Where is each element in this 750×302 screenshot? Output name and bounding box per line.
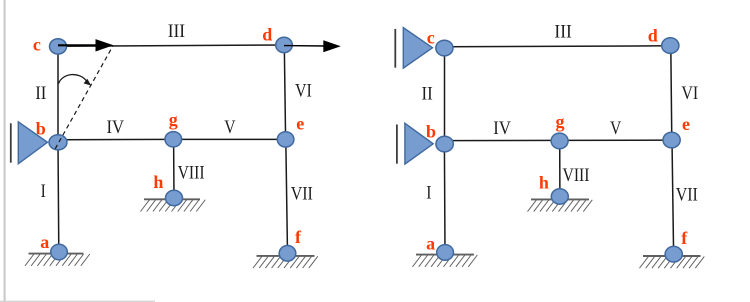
member II (wire c-b): [57, 46, 59, 142]
label d right: [648, 26, 658, 46]
label II: [35, 83, 46, 104]
svg-text:e: e: [682, 114, 690, 134]
svg-text:V: V: [610, 118, 622, 139]
member I (wire b-a): [57, 142, 60, 252]
dashed displaced member (b to arrow tip): [55, 45, 113, 148]
pin support at b right: [397, 123, 433, 164]
force arrow at c: [58, 39, 114, 51]
svg-text:VII: VII: [291, 184, 313, 205]
ground support at a: [25, 254, 90, 266]
svg-text:a: a: [40, 232, 49, 252]
svg-text:VIII: VIII: [178, 162, 205, 183]
member VII right (wire e-f): [672, 140, 674, 254]
node e: [277, 132, 294, 147]
node c: [50, 39, 67, 54]
member III right (wire c-d): [444, 46, 670, 47]
node a right: [437, 245, 454, 261]
member IV (wire b-g): [58, 138, 173, 140]
member I right (wire b-a): [443, 144, 446, 252]
svg-text:IV: IV: [493, 118, 511, 139]
ground support at h right: [528, 199, 593, 211]
svg-text:I: I: [41, 181, 46, 202]
label I right: [426, 182, 431, 203]
node e right: [663, 132, 680, 148]
label b: [36, 118, 46, 138]
node d: [276, 37, 293, 52]
label c: [33, 35, 41, 55]
force arrow at d: [284, 40, 341, 52]
label I: [41, 181, 46, 202]
svg-text:g: g: [169, 109, 178, 129]
svg-text:II: II: [422, 83, 433, 104]
label c right: [427, 28, 435, 48]
label II right: [422, 83, 433, 104]
svg-text:III: III: [168, 21, 185, 42]
svg-text:I: I: [426, 182, 431, 203]
svg-text:IV: IV: [107, 117, 125, 138]
node b right: [436, 136, 453, 152]
svg-text:e: e: [296, 114, 304, 134]
member II right (wire c-b): [444, 48, 446, 144]
label VIII right: [563, 165, 590, 186]
node f right: [665, 246, 682, 262]
label a: [40, 232, 49, 252]
node h: [166, 190, 183, 205]
node g right: [551, 133, 568, 149]
ground support at a right: [413, 255, 478, 267]
member VII (wire e-f): [286, 139, 288, 253]
label VII: [291, 184, 313, 205]
label VIII: [178, 162, 205, 183]
svg-text:V: V: [224, 117, 236, 138]
label V: [224, 117, 236, 138]
svg-text:b: b: [426, 122, 436, 142]
svg-text:VIII: VIII: [563, 165, 590, 186]
pin support at c right: [395, 28, 432, 69]
node h right: [551, 189, 568, 204]
svg-text:d: d: [648, 26, 658, 46]
svg-text:c: c: [33, 35, 41, 55]
member III (wire c-d): [58, 45, 284, 46]
node b: [49, 135, 67, 150]
svg-text:h: h: [539, 173, 549, 193]
member V right (wire g-e): [560, 139, 672, 141]
svg-text:VI: VI: [295, 81, 312, 102]
node f: [279, 246, 296, 262]
label IV right: [493, 118, 511, 139]
svg-text:f: f: [295, 227, 302, 247]
pin support at b (left wall): [11, 122, 48, 164]
ground support at h: [141, 199, 206, 211]
node d right: [662, 38, 679, 54]
svg-text:c: c: [427, 28, 435, 48]
label d: [262, 25, 272, 45]
label VI: [295, 81, 312, 102]
label h right: [539, 173, 549, 193]
member V (wire g-e): [173, 138, 285, 140]
svg-text:d: d: [262, 25, 272, 45]
label g: [169, 109, 178, 129]
ground support at f right: [640, 256, 705, 268]
member VIII right (wire g-h): [559, 140, 561, 196]
member VI (wire d-e): [284, 45, 285, 139]
member IV right (wire b-g): [445, 139, 560, 141]
node a: [51, 244, 68, 260]
label V right: [610, 118, 622, 139]
label h: [153, 172, 163, 192]
svg-text:II: II: [35, 83, 46, 104]
svg-text:VI: VI: [681, 83, 698, 104]
label e: [296, 114, 304, 134]
label VII right: [676, 185, 698, 206]
label g right: [556, 111, 565, 131]
label III right: [554, 22, 571, 43]
svg-text:h: h: [153, 172, 163, 192]
label f: [295, 227, 302, 247]
node g: [165, 132, 182, 147]
ground support at f: [253, 256, 318, 268]
svg-text:f: f: [681, 228, 688, 248]
rotation angle arc arrow: [59, 75, 92, 86]
svg-text:VII: VII: [676, 185, 698, 206]
svg-text:g: g: [556, 111, 565, 131]
svg-text:III: III: [554, 22, 571, 43]
label a right: [426, 233, 435, 253]
node c right: [436, 40, 453, 56]
label IV: [107, 117, 125, 138]
member VI right (wire d-e): [671, 46, 672, 140]
label III: [168, 21, 185, 42]
svg-text:a: a: [426, 233, 435, 253]
label e right: [682, 114, 690, 134]
member VIII (wire g-h): [173, 139, 175, 198]
svg-text:b: b: [36, 118, 46, 138]
label VI right: [681, 83, 698, 104]
label b right: [426, 122, 436, 142]
label f right: [681, 228, 688, 248]
